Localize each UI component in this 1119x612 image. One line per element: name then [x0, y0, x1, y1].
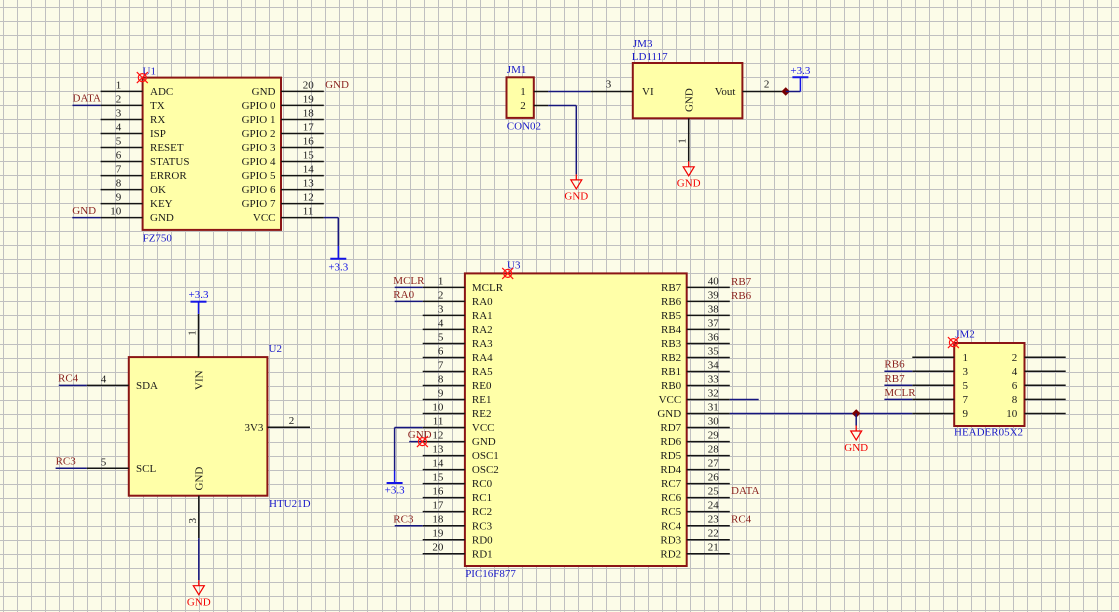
svg-text:GND: GND: [844, 442, 868, 454]
svg-text:32: 32: [708, 388, 719, 400]
svg-text:ERROR: ERROR: [150, 170, 187, 182]
svg-text:SCL: SCL: [136, 463, 156, 475]
svg-text:21: 21: [708, 542, 719, 554]
designator JM1: [507, 64, 527, 76]
svg-text:ISP: ISP: [150, 128, 166, 140]
svg-text:MCLR: MCLR: [884, 387, 916, 399]
svg-text:GND: GND: [677, 178, 701, 190]
U2 pin 5 SCL: [87, 456, 157, 475]
net label GND at U1 pin20: [325, 79, 349, 91]
svg-text:2: 2: [520, 100, 526, 112]
svg-text:RD2: RD2: [660, 548, 681, 560]
JM2 pin 5: [912, 380, 968, 392]
svg-text:1: 1: [520, 86, 526, 98]
power +3.3 at U2 VIN: [189, 289, 209, 302]
svg-text:RE2: RE2: [472, 408, 492, 420]
svg-text:RB4: RB4: [661, 324, 682, 336]
net label GND at U3 pin12: [408, 429, 432, 441]
svg-text:12: 12: [303, 192, 314, 204]
svg-text:15: 15: [432, 472, 444, 484]
net label RB6 at U3 pin39: [731, 290, 752, 302]
svg-text:RB7: RB7: [884, 373, 905, 385]
JM1 pin 1: [520, 86, 548, 98]
svg-text:RB1: RB1: [661, 366, 681, 378]
svg-text:MCLR: MCLR: [472, 282, 504, 294]
svg-text:5: 5: [101, 456, 107, 468]
svg-text:28: 28: [708, 444, 720, 456]
JM2 pin 7: [912, 394, 968, 406]
svg-text:5: 5: [963, 380, 969, 392]
svg-text:LD1117: LD1117: [632, 51, 668, 63]
JM3 pin 3 VI: [591, 79, 654, 98]
svg-text:38: 38: [708, 303, 720, 315]
svg-text:RA0: RA0: [393, 289, 414, 301]
svg-text:GPIO 2: GPIO 2: [242, 128, 276, 140]
svg-text:37: 37: [708, 317, 720, 329]
svg-text:3: 3: [606, 79, 612, 91]
junction at LD1117 Vout: [782, 88, 789, 95]
svg-text:RC7: RC7: [661, 478, 682, 490]
header JM2 HEADER05X2 body: [954, 343, 1024, 426]
svg-text:HEADER05X2: HEADER05X2: [954, 427, 1023, 439]
svg-text:14: 14: [303, 164, 315, 176]
svg-text:VCC: VCC: [253, 212, 276, 224]
wire net MCLR to U3 pin1: [395, 286, 423, 288]
net label RA0 at U3: [393, 289, 414, 301]
svg-text:6: 6: [1012, 380, 1018, 392]
wire net DATA to U1 pin2: [73, 104, 101, 106]
power +3.3 at U3 pin11: [385, 483, 405, 497]
svg-text:9: 9: [116, 192, 122, 204]
svg-text:11: 11: [303, 206, 314, 218]
svg-text:5: 5: [116, 136, 122, 148]
svg-text:SDA: SDA: [136, 380, 158, 392]
svg-text:GPIO 3: GPIO 3: [242, 142, 276, 154]
wire net RC4 to U2 SDA: [59, 384, 87, 386]
svg-text:RC2: RC2: [472, 506, 492, 518]
wire U2 VIN to +3.3: [198, 302, 200, 314]
svg-text:3: 3: [963, 366, 969, 378]
svg-text:GND: GND: [683, 88, 695, 112]
svg-text:RD5: RD5: [660, 450, 681, 462]
svg-text:+3.3: +3.3: [385, 485, 405, 497]
svg-text:7: 7: [963, 394, 969, 406]
svg-text:2: 2: [438, 289, 444, 301]
svg-text:U2: U2: [269, 343, 282, 355]
svg-text:RC3: RC3: [393, 513, 414, 525]
value HTU21D: [269, 498, 311, 510]
svg-text:12: 12: [432, 430, 443, 442]
svg-text:8: 8: [1012, 394, 1018, 406]
wire U1 VCC pin11 to +3.3: [324, 218, 339, 259]
wire net MCLR to JM2 pin7: [884, 398, 912, 400]
svg-text:15: 15: [303, 150, 315, 162]
svg-text:RC3: RC3: [472, 520, 493, 532]
svg-text:26: 26: [708, 472, 720, 484]
wire U3 VCC pin11 to +3.3: [395, 428, 423, 484]
svg-text:HTU21D: HTU21D: [269, 498, 311, 510]
JM3 pin 2 Vout: [715, 79, 784, 98]
svg-text:19: 19: [303, 93, 315, 105]
wire net RC3 to U3 pin18: [395, 525, 423, 527]
svg-text:18: 18: [303, 108, 315, 120]
svg-text:OK: OK: [150, 184, 166, 196]
power +3.3 at U1 VCC: [328, 259, 348, 274]
svg-text:RESET: RESET: [150, 142, 184, 154]
svg-text:1: 1: [116, 79, 122, 91]
svg-text:3V3: 3V3: [244, 422, 263, 434]
svg-text:DATA: DATA: [73, 93, 102, 105]
JM2 pin 1: [912, 352, 968, 364]
svg-text:VI: VI: [642, 86, 654, 98]
svg-text:RD4: RD4: [660, 464, 681, 476]
JM2 pin 8: [1012, 394, 1066, 406]
svg-text:8: 8: [116, 178, 122, 190]
U2 pin 2 3V3: [244, 415, 310, 434]
junction on GND wire: [853, 410, 860, 417]
svg-text:GPIO 6: GPIO 6: [242, 184, 276, 196]
svg-text:20: 20: [303, 79, 315, 91]
svg-text:GPIO 1: GPIO 1: [242, 114, 276, 126]
svg-text:RD1: RD1: [472, 548, 493, 560]
JM2 pin 3: [912, 366, 968, 378]
svg-text:RC4: RC4: [661, 520, 682, 532]
svg-text:RC1: RC1: [472, 492, 492, 504]
value LD1117: [632, 51, 668, 63]
svg-text:RC0: RC0: [472, 478, 493, 490]
U2 pin 3 GND: [187, 467, 206, 539]
JM1 pin 2: [520, 100, 548, 112]
net label RB7 at JM2: [884, 373, 905, 385]
svg-text:10: 10: [110, 206, 122, 218]
svg-text:+3.3: +3.3: [790, 65, 810, 77]
svg-text:3: 3: [438, 303, 444, 315]
svg-text:4: 4: [438, 317, 444, 329]
svg-text:16: 16: [432, 486, 444, 498]
svg-text:TX: TX: [150, 100, 165, 112]
svg-text:11: 11: [433, 416, 444, 428]
svg-text:17: 17: [303, 122, 315, 134]
svg-text:RD7: RD7: [660, 422, 681, 434]
svg-text:RB6: RB6: [884, 359, 905, 371]
svg-text:GND: GND: [72, 205, 96, 217]
wire LD1117 Vout to +3.3: [786, 77, 801, 91]
sensor U2 HTU21D body: [129, 357, 268, 496]
svg-text:GND: GND: [150, 212, 174, 224]
svg-text:30: 30: [708, 416, 720, 428]
svg-text:STATUS: STATUS: [150, 156, 189, 168]
wire JM1 pin1 to LD1117 VI: [548, 91, 590, 93]
svg-text:5: 5: [438, 332, 444, 344]
svg-text:MCLR: MCLR: [393, 275, 425, 287]
svg-text:VCC: VCC: [472, 422, 495, 434]
net label GND at U1 pin10: [72, 205, 96, 217]
JM2 pin 9: [912, 408, 968, 420]
JM3 pin 1 GND: [677, 88, 696, 161]
net label DATA: [73, 93, 102, 105]
wire net RB7 to JM2 pin5: [884, 384, 912, 386]
svg-text:RD6: RD6: [660, 436, 681, 448]
svg-text:4: 4: [101, 373, 107, 385]
svg-text:1: 1: [438, 275, 444, 287]
svg-text:RB7: RB7: [731, 276, 752, 288]
wire net RA0 to U3 pin2: [395, 300, 423, 302]
svg-text:GPIO 0: GPIO 0: [242, 100, 276, 112]
svg-text:+3.3: +3.3: [189, 289, 209, 301]
svg-text:RA2: RA2: [472, 324, 493, 336]
net label RC4 at U3 pin23: [731, 513, 752, 525]
svg-text:ADC: ADC: [150, 86, 173, 98]
wire JM1 pin2 to GND: [548, 106, 576, 175]
ground below U2: [187, 580, 211, 608]
designator JM2: [955, 329, 975, 341]
ground below LD1117: [677, 161, 701, 189]
svg-text:GND: GND: [187, 597, 211, 609]
net label DATA at U3 pin25: [731, 485, 760, 497]
connector JM1 CON02 body: [507, 77, 534, 118]
svg-text:22: 22: [708, 528, 719, 540]
svg-text:FZ750: FZ750: [143, 233, 173, 245]
wire net GND stub at U3 pin12: [409, 441, 423, 443]
net label RC3 at U3: [393, 513, 414, 525]
net label MCLR at JM2: [884, 387, 916, 399]
svg-text:4: 4: [116, 122, 122, 134]
svg-text:RC3: RC3: [56, 456, 77, 468]
svg-text:1: 1: [677, 138, 689, 144]
U2 pin 1 VIN: [187, 314, 206, 390]
JM2 pin 2: [1012, 352, 1066, 364]
svg-text:RA4: RA4: [472, 352, 493, 364]
svg-text:4: 4: [1012, 366, 1018, 378]
svg-text:RB3: RB3: [661, 338, 682, 350]
net label RB6 at JM2: [884, 359, 905, 371]
regulator JM3 LD1117 body: [633, 63, 743, 118]
net label MCLR at U3: [393, 275, 425, 287]
svg-text:10: 10: [432, 402, 444, 414]
designator JM3: [633, 38, 653, 50]
svg-text:14: 14: [432, 458, 444, 470]
svg-text:JM3: JM3: [633, 38, 653, 50]
svg-text:RA5: RA5: [472, 366, 493, 378]
svg-text:27: 27: [708, 458, 720, 470]
svg-text:GPIO 5: GPIO 5: [242, 170, 276, 182]
wire stub at U3 pin32 VCC: [730, 399, 759, 401]
no-ERC marker JM2 origin: [948, 337, 959, 348]
U2 pin 4 SDA: [87, 373, 158, 392]
svg-text:GND: GND: [252, 86, 276, 98]
wire net RB6 to JM2 pin3: [884, 370, 912, 372]
no-ERC marker U3 origin: [502, 268, 513, 279]
net label RC4 at U2: [58, 373, 79, 385]
svg-text:GPIO 7: GPIO 7: [242, 198, 276, 210]
U3 pins left 1-20: [423, 275, 504, 560]
svg-text:RA1: RA1: [472, 310, 493, 322]
svg-text:RA0: RA0: [472, 296, 493, 308]
svg-text:RC6: RC6: [661, 492, 682, 504]
svg-text:RB7: RB7: [661, 282, 682, 294]
svg-text:6: 6: [116, 150, 122, 162]
svg-text:KEY: KEY: [150, 198, 173, 210]
U1 pins right 20-11: [242, 79, 324, 224]
svg-text:9: 9: [438, 388, 444, 400]
JM2 pin 6: [1012, 380, 1066, 392]
svg-text:16: 16: [303, 136, 315, 148]
value CON02: [507, 120, 541, 132]
svg-text:29: 29: [708, 430, 720, 442]
wire net GND to U1 pin10: [72, 217, 100, 219]
svg-text:OSC1: OSC1: [472, 450, 499, 462]
net label RC3 at U2: [56, 456, 77, 468]
svg-text:17: 17: [432, 500, 444, 512]
no-ERC marker GND12: [417, 436, 428, 447]
svg-text:CON02: CON02: [507, 120, 541, 132]
svg-text:RB0: RB0: [661, 380, 682, 392]
JM2 pin 4: [1012, 366, 1066, 378]
svg-text:RB6: RB6: [661, 296, 682, 308]
svg-text:GND: GND: [325, 79, 349, 91]
svg-text:VCC: VCC: [659, 394, 682, 406]
svg-text:2: 2: [1012, 352, 1018, 364]
svg-text:3: 3: [187, 517, 199, 523]
svg-text:8: 8: [438, 374, 444, 386]
svg-text:RC4: RC4: [731, 513, 752, 525]
svg-text:RD3: RD3: [660, 534, 681, 546]
svg-text:VIN: VIN: [193, 370, 205, 390]
svg-text:36: 36: [708, 332, 720, 344]
svg-text:RD0: RD0: [472, 534, 493, 546]
svg-text:34: 34: [708, 360, 720, 372]
designator U2: [269, 343, 282, 355]
svg-text:13: 13: [432, 444, 444, 456]
svg-text:7: 7: [438, 360, 444, 372]
svg-text:PIC16F877: PIC16F877: [465, 568, 516, 580]
ground below GND wire: [844, 426, 868, 454]
svg-text:10: 10: [1006, 408, 1018, 420]
svg-text:20: 20: [432, 542, 444, 554]
svg-text:GND: GND: [657, 408, 681, 420]
svg-text:2: 2: [764, 79, 770, 91]
no-ERC marker U1 origin: [137, 72, 148, 83]
svg-text:RE0: RE0: [472, 380, 492, 392]
svg-text:+3.3: +3.3: [328, 261, 348, 273]
svg-text:13: 13: [303, 178, 315, 190]
svg-text:RC5: RC5: [661, 506, 682, 518]
designator U3: [507, 259, 521, 271]
svg-text:33: 33: [708, 374, 720, 386]
svg-text:19: 19: [432, 528, 444, 540]
svg-text:JM1: JM1: [507, 64, 527, 76]
wire U2 GND pin to ground: [198, 538, 200, 580]
svg-text:39: 39: [708, 289, 720, 301]
svg-text:35: 35: [708, 346, 720, 358]
svg-text:6: 6: [438, 346, 444, 358]
svg-text:9: 9: [963, 408, 969, 420]
wire junction to ground: [855, 414, 857, 426]
svg-text:RB6: RB6: [731, 290, 752, 302]
svg-text:31: 31: [708, 402, 719, 414]
svg-text:24: 24: [708, 500, 720, 512]
designator U1: [143, 65, 156, 77]
svg-text:GPIO 4: GPIO 4: [242, 156, 276, 168]
net label RB7 at U3 pin40: [731, 276, 752, 288]
svg-text:DATA: DATA: [731, 485, 760, 497]
power +3.3 at LD1117 Vout: [790, 65, 810, 77]
value HEADER05X2: [954, 427, 1023, 439]
wire net RC3 to U2 SCL: [56, 467, 87, 469]
svg-text:18: 18: [432, 514, 444, 526]
ground below JM1: [564, 174, 588, 202]
svg-text:RE1: RE1: [472, 394, 492, 406]
IC U1 FZ750 body: [143, 78, 281, 230]
svg-text:GND: GND: [564, 191, 588, 203]
svg-text:Vout: Vout: [715, 86, 736, 98]
svg-text:RB5: RB5: [661, 310, 682, 322]
svg-text:OSC2: OSC2: [472, 464, 499, 476]
U1 pins left 1-10: [101, 79, 190, 224]
wire U3 pin31 GND to JM2 pin9: [730, 413, 913, 415]
svg-text:40: 40: [708, 275, 720, 287]
svg-text:2: 2: [116, 93, 122, 105]
svg-text:1: 1: [187, 330, 199, 336]
svg-text:7: 7: [116, 164, 122, 176]
U3 pins right 40-21: [657, 275, 729, 560]
value PIC16F877: [465, 568, 516, 580]
svg-text:GND: GND: [472, 436, 496, 448]
svg-text:3: 3: [116, 108, 122, 120]
svg-text:RA3: RA3: [472, 338, 493, 350]
JM2 pin 10: [1006, 408, 1065, 420]
svg-text:1: 1: [963, 352, 969, 364]
svg-text:25: 25: [708, 486, 720, 498]
svg-text:23: 23: [708, 514, 720, 526]
svg-text:GND: GND: [194, 467, 206, 491]
svg-text:2: 2: [289, 415, 295, 427]
svg-text:RC4: RC4: [58, 373, 79, 385]
value FZ750: [143, 233, 173, 245]
MCU U3 PIC16F877 body: [465, 273, 687, 566]
svg-text:RX: RX: [150, 114, 165, 126]
svg-text:RB2: RB2: [661, 352, 681, 364]
